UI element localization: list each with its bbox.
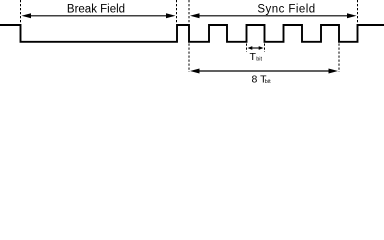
node break end dashed boundary (176, 0, 178, 23)
svg-text:Break Field: Break Field (67, 3, 125, 15)
node break start dashed boundary (20, 0, 22, 23)
wire 8 Tbit dimension arrow (190, 69, 338, 74)
svg-text:bit: bit (265, 79, 271, 85)
node 8Tbit left dashed boundary (bottom) (188, 44, 190, 73)
svg-text:Sync Field: Sync Field (257, 3, 315, 15)
node sync start dashed boundary (top) (188, 0, 190, 23)
wire Sync Field dimension arrow (190, 13, 357, 18)
node 8Tbit right dashed boundary (bottom) (338, 44, 340, 73)
node Tbit right tick (264, 44, 266, 53)
label 8 Tbit (252, 74, 272, 86)
wire Tbit dimension arrow (248, 46, 264, 50)
node Tbit left tick (246, 44, 248, 53)
wire LIN bus waveform (break + sync pulses) (0, 25, 384, 42)
node sync end dashed boundary (top) (357, 0, 359, 24)
svg-text:bit: bit (256, 56, 262, 62)
label Tbit (250, 51, 263, 63)
wire Break Field dimension arrow (22, 13, 176, 18)
